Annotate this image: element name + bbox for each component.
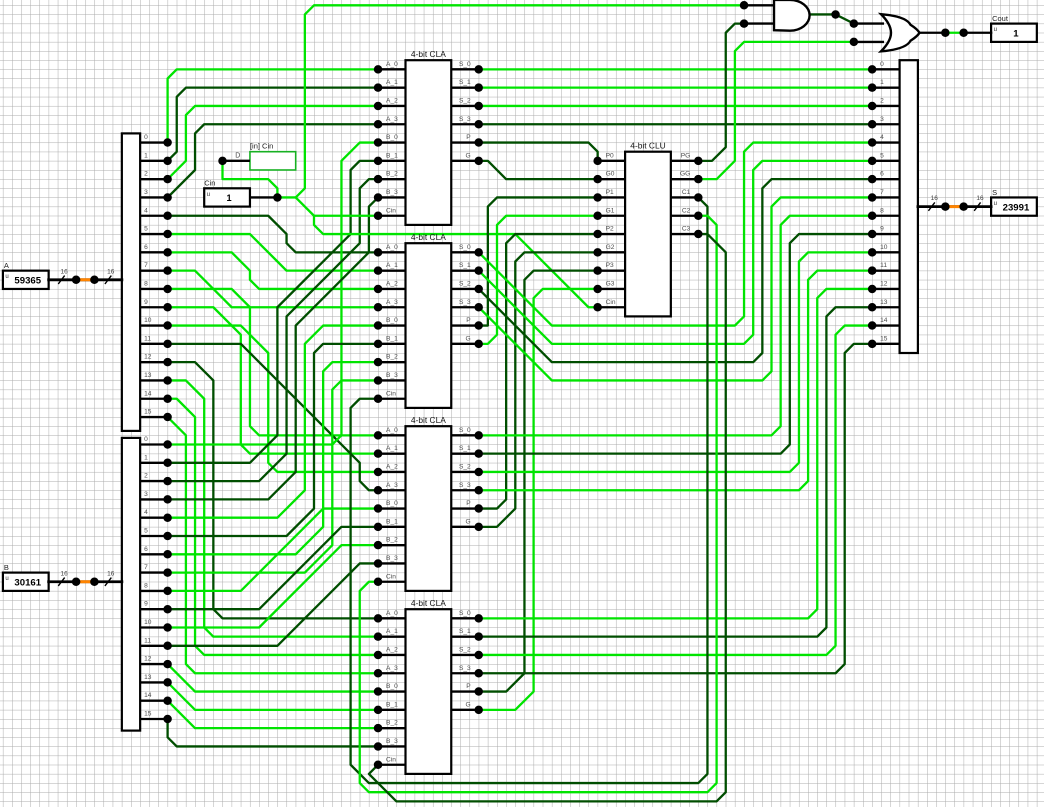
wire G1 (CLA2 G, value 1) bbox=[479, 216, 598, 344]
svg-text:0: 0 bbox=[880, 61, 884, 68]
svg-text:S: S bbox=[992, 188, 997, 197]
svg-text:P2: P2 bbox=[606, 226, 614, 233]
op-amp U1 4-bit CLA block bbox=[374, 49, 483, 225]
wire A14 (A bit14, value 1) bbox=[168, 399, 378, 655]
svg-text:C2: C2 bbox=[682, 207, 691, 214]
svg-text:A_3: A_3 bbox=[386, 665, 398, 672]
svg-text:B_0: B_0 bbox=[386, 500, 398, 507]
svg-text:C1: C1 bbox=[682, 189, 691, 196]
svg-text:10: 10 bbox=[144, 619, 152, 626]
wire B15 (B bit15, value 0) bbox=[168, 719, 378, 746]
splitter A (16-bit fanout) bbox=[122, 133, 172, 431]
output pin Cout with value 1 bbox=[991, 14, 1037, 42]
svg-text:16: 16 bbox=[107, 570, 115, 577]
svg-text:A_3: A_3 bbox=[386, 299, 398, 306]
svg-text:A_3: A_3 bbox=[386, 482, 398, 489]
svg-text:S_3: S_3 bbox=[459, 116, 471, 123]
wire A9 (A bit9, value 1) bbox=[168, 307, 378, 453]
wire B6 (B bit6, value 1) bbox=[168, 362, 378, 554]
svg-text:30161: 30161 bbox=[14, 578, 41, 589]
svg-text:4-bit CLU: 4-bit CLU bbox=[630, 141, 665, 151]
svg-text:B_1: B_1 bbox=[386, 335, 398, 342]
wire A3 (A bit3, value 0) bbox=[168, 124, 378, 197]
svg-text:A_1: A_1 bbox=[386, 262, 398, 269]
svg-text:4-bit CLA: 4-bit CLA bbox=[411, 49, 446, 59]
svg-text:4-bit CLA: 4-bit CLA bbox=[411, 415, 446, 425]
wire A5 (A bit5, value 1) bbox=[168, 234, 378, 271]
svg-text:14: 14 bbox=[144, 390, 152, 397]
svg-text:9: 9 bbox=[880, 226, 884, 233]
svg-text:11: 11 bbox=[880, 262, 887, 269]
svg-text:16: 16 bbox=[60, 570, 68, 577]
wire B2 (B bit2, value 0) bbox=[168, 179, 378, 481]
svg-text:S_3: S_3 bbox=[459, 299, 471, 306]
wire A13 (A bit13, value 1) bbox=[168, 380, 378, 636]
wire B3 (B bit3, value 0) bbox=[168, 197, 378, 499]
svg-text:11: 11 bbox=[144, 335, 151, 342]
svg-text:5: 5 bbox=[880, 152, 884, 159]
svg-text:A_3: A_3 bbox=[386, 116, 398, 123]
svg-text:u: u bbox=[207, 192, 210, 198]
svg-text:S_2: S_2 bbox=[459, 646, 471, 653]
svg-text:4-bit CLA: 4-bit CLA bbox=[411, 598, 446, 608]
wire S15 (sum bit15, value 0) bbox=[479, 344, 872, 673]
svg-text:G2: G2 bbox=[606, 244, 615, 251]
svg-text:A_2: A_2 bbox=[386, 97, 398, 104]
AND gate U5 (PG AND Cin) bbox=[740, 0, 810, 31]
svg-text:2: 2 bbox=[144, 171, 148, 178]
svg-text:u: u bbox=[5, 576, 8, 582]
wire G3 (CLA4 G, value 1) bbox=[479, 289, 598, 710]
svg-text:A_0: A_0 bbox=[386, 610, 398, 617]
svg-text:16: 16 bbox=[931, 195, 939, 202]
4-bit CLU block bbox=[593, 141, 702, 317]
bus wire splitter to S (16-bit) bbox=[918, 195, 991, 211]
splitter B (16-bit fanout) bbox=[122, 436, 172, 731]
svg-text:B_3: B_3 bbox=[386, 372, 398, 379]
wire B13 (B bit13, value 1) bbox=[168, 682, 378, 709]
svg-text:G: G bbox=[466, 518, 471, 525]
svg-text:1: 1 bbox=[227, 193, 232, 203]
svg-text:1: 1 bbox=[144, 152, 148, 159]
node AND output junction dots bbox=[831, 10, 884, 46]
constant Cin = 1 bbox=[204, 178, 281, 206]
svg-text:3: 3 bbox=[144, 189, 148, 196]
svg-text:B_2: B_2 bbox=[386, 171, 398, 178]
svg-text:S_0: S_0 bbox=[459, 244, 471, 251]
wire S5 (sum bit5, value 1) bbox=[479, 161, 872, 344]
wire S13 (sum bit13, value 0) bbox=[479, 307, 872, 636]
svg-text:6: 6 bbox=[144, 244, 148, 251]
svg-text:Cin: Cin bbox=[204, 178, 215, 187]
svg-text:A_0: A_0 bbox=[386, 244, 398, 251]
svg-text:4-bit CLA: 4-bit CLA bbox=[411, 232, 446, 242]
wire P1 (CLA2 P, value 0) bbox=[479, 197, 598, 325]
svg-text:S_2: S_2 bbox=[459, 463, 471, 470]
svg-text:11: 11 bbox=[144, 637, 151, 644]
svg-text:3: 3 bbox=[144, 491, 148, 498]
svg-text:S_3: S_3 bbox=[459, 482, 471, 489]
svg-text:12: 12 bbox=[144, 354, 152, 361]
svg-text:PG: PG bbox=[681, 152, 691, 159]
wire S7 (sum bit7, value 1) bbox=[479, 197, 872, 380]
OR gate U6 (GG OR carry-chain) driving Cout bbox=[881, 14, 920, 51]
svg-text:7: 7 bbox=[880, 189, 884, 196]
wire A0 (A bit0, value 1) bbox=[168, 69, 378, 142]
svg-text:S_3: S_3 bbox=[459, 665, 471, 672]
wire S14 (sum bit14, value 1) bbox=[479, 326, 872, 655]
svg-text:15: 15 bbox=[880, 335, 888, 342]
wire S0 (sum bit0, value 1) bbox=[479, 68, 872, 70]
svg-text:G: G bbox=[466, 701, 471, 708]
wire B7 (B bit7, value 1) bbox=[168, 380, 378, 572]
svg-text:1: 1 bbox=[144, 454, 148, 461]
wire S9 (sum bit9, value 0) bbox=[479, 234, 872, 454]
svg-text:S_1: S_1 bbox=[459, 445, 471, 452]
wire S8 (sum bit8, value 1) bbox=[479, 216, 872, 436]
svg-text:6: 6 bbox=[880, 171, 884, 178]
wire S6 (sum bit6, value 0) bbox=[479, 179, 872, 362]
wire P3 (CLA4 P, value 0) bbox=[479, 271, 598, 692]
svg-text:G: G bbox=[466, 152, 471, 159]
svg-text:A_2: A_2 bbox=[386, 463, 398, 470]
wire B8 (B bit8, value 1) bbox=[168, 509, 378, 591]
input pin A with value 59365 bbox=[3, 261, 49, 289]
wire S2 (sum bit2, value 1) bbox=[479, 105, 872, 107]
svg-text:S_1: S_1 bbox=[459, 628, 471, 635]
svg-text:16: 16 bbox=[107, 268, 115, 275]
wire B10 (B bit10, value 1) bbox=[168, 545, 378, 627]
svg-text:G3: G3 bbox=[606, 280, 615, 287]
wire A4 (A bit4, value 0) bbox=[168, 216, 378, 253]
svg-text:Cin: Cin bbox=[386, 390, 396, 397]
svg-text:5: 5 bbox=[144, 226, 148, 233]
svg-text:A_1: A_1 bbox=[386, 445, 398, 452]
svg-text:B: B bbox=[4, 563, 9, 572]
svg-text:S_1: S_1 bbox=[459, 262, 471, 269]
svg-text:8: 8 bbox=[144, 280, 148, 287]
svg-text:4: 4 bbox=[144, 509, 148, 516]
svg-text:Cin: Cin bbox=[386, 573, 396, 580]
svg-text:5: 5 bbox=[144, 528, 148, 535]
svg-text:8: 8 bbox=[144, 582, 148, 589]
svg-text:13: 13 bbox=[880, 299, 888, 306]
wire A1 (A bit1, value 0) bbox=[168, 88, 378, 161]
svg-text:A_1: A_1 bbox=[386, 628, 398, 635]
svg-text:7: 7 bbox=[144, 564, 148, 571]
svg-text:u: u bbox=[994, 201, 997, 207]
svg-text:4: 4 bbox=[880, 134, 884, 141]
wire B9 (B bit9, value 0) bbox=[168, 527, 378, 609]
wire A7 (A bit7, value 1) bbox=[168, 271, 378, 308]
wire A11 (A bit11, value 0) bbox=[168, 344, 378, 490]
svg-text:A_2: A_2 bbox=[386, 280, 398, 287]
svg-text:6: 6 bbox=[144, 546, 148, 553]
svg-text:B_0: B_0 bbox=[386, 683, 398, 690]
svg-text:B_2: B_2 bbox=[386, 354, 398, 361]
svg-text:A_0: A_0 bbox=[386, 61, 398, 68]
wire B1 (B bit1, value 0) bbox=[168, 161, 378, 463]
wire S12 (sum bit12, value 1) bbox=[479, 289, 872, 618]
svg-text:12: 12 bbox=[880, 280, 888, 287]
svg-text:S_2: S_2 bbox=[459, 97, 471, 104]
svg-text:P: P bbox=[466, 317, 471, 324]
svg-text:G0: G0 bbox=[606, 171, 615, 178]
svg-text:A: A bbox=[4, 261, 9, 270]
svg-text:GG: GG bbox=[680, 171, 690, 178]
wire A2 (A bit2, value 1) bbox=[168, 106, 378, 179]
svg-text:P: P bbox=[466, 500, 471, 507]
svg-text:15: 15 bbox=[144, 711, 152, 718]
svg-text:1: 1 bbox=[1013, 29, 1019, 40]
svg-text:1: 1 bbox=[880, 79, 884, 86]
svg-text:14: 14 bbox=[144, 692, 152, 699]
wire B4 (B bit4, value 1) bbox=[168, 326, 378, 518]
wire P0 (CLA1 P, value 0) bbox=[479, 143, 598, 161]
svg-text:15: 15 bbox=[144, 409, 152, 416]
svg-text:2: 2 bbox=[144, 473, 148, 480]
svg-text:A_0: A_0 bbox=[386, 427, 398, 434]
svg-text:B_0: B_0 bbox=[386, 134, 398, 141]
svg-text:7: 7 bbox=[144, 262, 148, 269]
svg-text:P: P bbox=[466, 134, 471, 141]
svg-text:B_3: B_3 bbox=[386, 555, 398, 562]
svg-text:8: 8 bbox=[880, 207, 884, 214]
wire B0 (B bit0, value 1) bbox=[168, 143, 378, 445]
wire AND output (value 0) bbox=[811, 14, 854, 23]
wire C3 (carry into group3, value 0) bbox=[369, 234, 726, 801]
svg-text:2: 2 bbox=[880, 97, 884, 104]
svg-text:D: D bbox=[235, 153, 240, 160]
wire B5 (B bit5, value 0) bbox=[168, 344, 378, 536]
svg-text:B_2: B_2 bbox=[386, 720, 398, 727]
svg-text:B_1: B_1 bbox=[386, 701, 398, 708]
op-amp U3 4-bit CLA block bbox=[374, 415, 483, 591]
bus wire B to splitter (16-bit) bbox=[49, 570, 122, 586]
op-amp U4 4-bit CLA block bbox=[374, 598, 483, 774]
svg-text:S_2: S_2 bbox=[459, 280, 471, 287]
wire S10 (sum bit10, value 1) bbox=[479, 252, 872, 472]
wire A15 (A bit15, value 1) bbox=[168, 417, 378, 673]
wire S11 (sum bit11, value 1) bbox=[479, 271, 872, 491]
svg-text:Cin: Cin bbox=[386, 756, 396, 763]
svg-text:0: 0 bbox=[144, 436, 148, 443]
svg-text:B_1: B_1 bbox=[386, 152, 398, 159]
svg-text:P1: P1 bbox=[606, 189, 614, 196]
svg-text:16: 16 bbox=[976, 195, 984, 202]
svg-text:S_0: S_0 bbox=[459, 61, 471, 68]
svg-text:10: 10 bbox=[880, 244, 888, 251]
svg-text:A_2: A_2 bbox=[386, 646, 398, 653]
wire A8 (A bit8, value 1) bbox=[168, 289, 378, 435]
wire B12 (B bit12, value 1) bbox=[168, 664, 378, 691]
wire S3 (sum bit3, value 0) bbox=[479, 123, 872, 125]
svg-text:9: 9 bbox=[144, 299, 148, 306]
output pin S with value 23991 bbox=[991, 188, 1037, 216]
svg-text:9: 9 bbox=[144, 601, 148, 608]
svg-text:23991: 23991 bbox=[1003, 202, 1030, 213]
svg-text:Cout: Cout bbox=[992, 14, 1009, 23]
svg-text:[in] Cin: [in] Cin bbox=[250, 142, 273, 151]
svg-text:G: G bbox=[466, 335, 471, 342]
svg-text:B_1: B_1 bbox=[386, 518, 398, 525]
wire G0 (CLA1 G, value 0) bbox=[479, 161, 598, 179]
wire A6 (A bit6, value 1) bbox=[168, 252, 378, 289]
svg-text:S_0: S_0 bbox=[459, 610, 471, 617]
svg-text:12: 12 bbox=[144, 656, 152, 663]
svg-text:u: u bbox=[5, 274, 8, 280]
svg-text:G1: G1 bbox=[606, 207, 615, 214]
wire B11 (B bit11, value 0) bbox=[168, 563, 378, 645]
svg-text:S_1: S_1 bbox=[459, 79, 471, 86]
svg-text:B_0: B_0 bbox=[386, 317, 398, 324]
svg-text:S_0: S_0 bbox=[459, 427, 471, 434]
svg-text:Cin: Cin bbox=[606, 299, 616, 306]
wire C1 (carry into group1, value 0) bbox=[351, 197, 708, 783]
wire G2 (CLA3 G, value 0) bbox=[479, 252, 598, 526]
svg-text:0: 0 bbox=[144, 134, 148, 141]
svg-text:4: 4 bbox=[144, 207, 148, 214]
wire A12 (A bit12, value 0) bbox=[168, 362, 378, 618]
wire S4 (sum bit4, value 1) bbox=[479, 143, 872, 326]
svg-text:P: P bbox=[466, 683, 471, 690]
svg-text:13: 13 bbox=[144, 372, 152, 379]
wire OR output to Cout bbox=[920, 29, 992, 38]
svg-text:3: 3 bbox=[880, 116, 884, 123]
svg-text:u: u bbox=[994, 27, 997, 33]
svg-text:13: 13 bbox=[144, 674, 152, 681]
svg-text:16: 16 bbox=[60, 268, 68, 275]
svg-text:10: 10 bbox=[144, 317, 152, 324]
wire C2 (carry into group2, value 1) bbox=[360, 216, 717, 792]
splitter S (16-bit combiner) bbox=[868, 60, 918, 353]
svg-text:P3: P3 bbox=[606, 262, 614, 269]
svg-text:Cin: Cin bbox=[386, 207, 396, 214]
wire B14 (B bit14, value 1) bbox=[168, 701, 378, 728]
svg-text:B_3: B_3 bbox=[386, 189, 398, 196]
wire GG (CLU GG to OR gate, value 1) bbox=[698, 42, 854, 179]
svg-text:A_1: A_1 bbox=[386, 79, 398, 86]
bus wire A to splitter (16-bit) bbox=[49, 268, 122, 284]
wire S1 (sum bit1, value 1) bbox=[479, 87, 872, 89]
input pin B with value 30161 bbox=[3, 563, 49, 591]
input pin [in] Cin (green box) bbox=[218, 142, 295, 170]
op-amp U2 4-bit CLA block bbox=[374, 232, 483, 408]
wire PG (CLU PG to AND gate, value 0) bbox=[698, 24, 744, 161]
svg-text:14: 14 bbox=[880, 317, 888, 324]
svg-text:P0: P0 bbox=[606, 152, 614, 159]
svg-text:C3: C3 bbox=[682, 226, 691, 233]
wire A10 (A bit10, value 1) bbox=[168, 326, 378, 472]
wire net Cin (value 1) bbox=[223, 5, 745, 307]
wire P2 (CLA3 P, value 0) bbox=[479, 234, 598, 509]
svg-text:B_2: B_2 bbox=[386, 537, 398, 544]
svg-text:B_3: B_3 bbox=[386, 738, 398, 745]
svg-text:59365: 59365 bbox=[14, 276, 41, 287]
